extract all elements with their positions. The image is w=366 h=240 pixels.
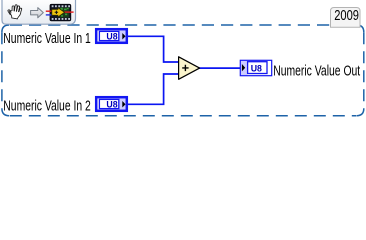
dashed structure border: left edge — [1, 32, 3, 108]
terminal: indicator U8 out — [240, 60, 271, 75]
svg-text:Numeric Value In 2: Numeric Value In 2 — [3, 97, 91, 114]
filmstrip VI icon — [46, 4, 74, 21]
svg-text:U8: U8 — [251, 63, 262, 73]
svg-text:Numeric Value In 1: Numeric Value In 1 — [3, 30, 91, 47]
wire: terminal 1 to adder — [128, 36, 179, 62]
dashed structure border: top-left corner arc — [2, 25, 9, 32]
wire: adder to output terminal — [199, 67, 241, 69]
toolbar tab — [2, 0, 76, 24]
svg-text:U8: U8 — [106, 100, 117, 110]
dashed structure border: top-right corner arc — [357, 25, 364, 32]
run arrow icon — [31, 8, 44, 18]
hand tool icon — [6, 3, 22, 19]
2009 year tab — [331, 8, 361, 28]
svg-text:U8: U8 — [106, 32, 117, 42]
wire: terminal 2 to adder — [128, 74, 179, 104]
adder function — [179, 57, 200, 80]
dashed structure border: top edge — [10, 24, 356, 26]
terminal: control U8 #1 — [96, 29, 127, 43]
svg-text:Numeric Value Out: Numeric Value Out — [273, 63, 361, 80]
terminal: control U8 #2 — [96, 97, 127, 111]
dashed structure border: bottom-right corner arc — [357, 109, 364, 116]
dashed structure border: bottom-left corner arc — [2, 109, 9, 116]
svg-text:2009: 2009 — [334, 7, 359, 24]
dashed structure border: right edge — [363, 32, 365, 108]
dashed structure border: bottom edge — [10, 115, 356, 117]
